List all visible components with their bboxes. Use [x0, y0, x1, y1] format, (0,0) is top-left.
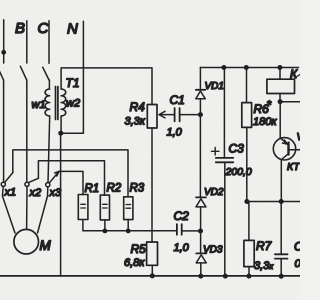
wire collector lead down to transistor [279, 102, 281, 139]
resistor R3 [124, 197, 133, 220]
svg-text:C2: C2 [174, 209, 190, 223]
diode VD3 [196, 252, 206, 254]
wire node line to right edge [247, 201, 300, 203]
resistor R7 [244, 240, 254, 266]
svg-text:M: M [40, 238, 52, 253]
wire R4 top lead [151, 68, 153, 105]
node W2/N junction dot [58, 131, 63, 136]
wire X1 branch [13, 150, 128, 197]
svg-text:C3: C3 [229, 142, 245, 156]
svg-text:VD3: VD3 [203, 245, 223, 256]
wire R4 bottom to R5 [151, 128, 153, 242]
svg-text:200,0: 200,0 [225, 166, 252, 178]
resistor R6 [242, 103, 252, 128]
svg-text:x3: x3 [49, 187, 63, 199]
svg-text:R5: R5 [131, 242, 147, 256]
svg-text:C: C [38, 20, 49, 37]
node C3/rail dot [221, 65, 226, 70]
capacitor C2 plates [177, 224, 182, 235]
contact X2 diagonal [29, 178, 39, 182]
wire VD column top [199, 68, 201, 90]
wire X3 branch [59, 171, 83, 194]
svg-text:1,0: 1,0 [167, 127, 183, 139]
capacitor C1 plates [175, 108, 180, 121]
wire C1 node to VD2 [199, 115, 201, 197]
transistor VT KT circle [273, 138, 295, 160]
wire W1 bottom to X3 [48, 116, 50, 183]
svg-text:C1: C1 [170, 93, 185, 107]
switch SA blade phase B [20, 66, 26, 80]
wire X2 branch [38, 161, 104, 196]
svg-text:B: B [15, 20, 25, 37]
relay coil K box [267, 79, 295, 93]
svg-text:w1: w1 [32, 99, 46, 111]
resistor R2 [100, 195, 109, 220]
wire phase C vertical top [48, 21, 50, 64]
switch SA blade phase A [0, 66, 4, 80]
transformer T1 core [56, 87, 58, 120]
svg-text:VD1: VD1 [205, 81, 224, 92]
node relay/rail dot [277, 65, 282, 70]
capacitor C1 wiper arrow to R4 [159, 111, 174, 118]
wire R6 top lead [246, 68, 248, 103]
wire phase B lower [26, 80, 28, 182]
node C4/rail dot [279, 274, 284, 279]
top rail right segment [200, 67, 298, 69]
node VD/C2 dot [198, 229, 203, 234]
wire W2 bottom lead [60, 116, 62, 133]
transistor base bar [287, 143, 289, 155]
contact X2 circle [25, 182, 29, 186]
wire C4 bottom lead [280, 259, 282, 277]
motor M funnel wires [2, 186, 47, 233]
resistor R4 potentiometer [147, 105, 157, 129]
wire C2 node to VD3 [200, 231, 202, 253]
node R5/rail dot [150, 273, 155, 278]
node relay bottom dot [278, 99, 283, 104]
wire C1 right lead [180, 114, 200, 116]
svg-text:C: C [294, 240, 300, 254]
node A dot [1, 50, 6, 55]
node C1/VD dot [198, 112, 203, 117]
wire C2 right lead [182, 230, 200, 232]
node R6/R7 dot [244, 199, 249, 204]
transformer T1 winding W1 [45, 89, 50, 116]
contact X1 diagonal [5, 172, 13, 182]
svg-text:VD2: VD2 [204, 187, 224, 198]
svg-text:R7: R7 [256, 239, 273, 253]
wire R6 bottom to node [246, 127, 248, 201]
wire R3 bottom [127, 220, 129, 231]
contact X3 diagonal [49, 172, 59, 183]
wire R7 bottom lead [248, 267, 250, 277]
wire VD3 to rail [200, 263, 202, 276]
capacitor C3 plates [216, 158, 234, 162]
contact X3 circle [46, 183, 50, 187]
svg-text:3,3к: 3,3к [125, 116, 146, 128]
resistor R1 [78, 195, 88, 220]
svg-text:x1: x1 [4, 187, 17, 199]
bottom rail [0, 275, 300, 277]
wire relay top lead [279, 68, 281, 80]
diode VD2 [196, 196, 206, 198]
svg-text:x2: x2 [29, 187, 42, 199]
diode VD1 [196, 89, 206, 91]
wire R1 bottom to node [83, 220, 176, 231]
capacitor C3 plus sign [212, 148, 220, 156]
motor M circle [14, 229, 39, 254]
wire transistor bottom lead [280, 160, 282, 202]
svg-text:T1: T1 [66, 76, 80, 90]
node R2 dot [103, 229, 108, 234]
node R3 dot [126, 229, 131, 234]
wire phase B vertical top [26, 21, 28, 63]
wire C3 top lead [223, 68, 225, 158]
wire C3 bottom lead [224, 163, 226, 277]
svg-text:w2: w2 [66, 98, 80, 110]
wire R2 bottom [104, 220, 106, 231]
svg-text:3,3к: 3,3к [254, 260, 274, 272]
svg-text:0: 0 [295, 258, 301, 270]
wire C4 top lead [280, 202, 282, 255]
wire VD2 to C2 node [200, 207, 202, 231]
wire phase C to winding W1 [48, 80, 50, 89]
transistor emitter arrow diagonal [280, 138, 287, 144]
wire W2 top to rail [61, 68, 152, 89]
svg-text:R4: R4 [130, 100, 146, 114]
svg-text:R2: R2 [107, 183, 122, 195]
capacitor C4 plates [275, 254, 288, 258]
wire phase A lower [3, 80, 5, 182]
svg-text:R3: R3 [130, 183, 145, 195]
switch SA blade phase C [43, 67, 49, 80]
transistor base lead right [290, 149, 301, 151]
svg-text:*: * [267, 98, 272, 112]
wire N/W2 node down to bottom rail [60, 133, 62, 276]
wire phase A vertical top [3, 20, 5, 63]
resistor R5 [147, 242, 158, 265]
svg-text:R1: R1 [85, 183, 100, 195]
wire relay node to right edge [280, 101, 300, 103]
transformer T1 winding W2 [61, 89, 66, 116]
wire N vertical [62, 21, 83, 133]
svg-text:КТ: КТ [287, 161, 300, 173]
svg-text:1,0: 1,0 [174, 242, 190, 254]
node C3/rail dot bottom [223, 274, 228, 279]
wire R5 bottom lead [151, 265, 153, 276]
node VD3/rail dot [198, 274, 203, 279]
svg-text:6,8к: 6,8к [124, 257, 145, 269]
svg-text:N: N [67, 21, 78, 38]
node R7/rail dot [246, 274, 251, 279]
contact X1 circle [1, 182, 5, 186]
wire VD1 to C1 node [199, 99, 201, 115]
svg-text:180к: 180к [253, 116, 277, 128]
node transistor/C4 dot [279, 199, 284, 204]
wire R7 top lead [248, 202, 250, 241]
capacitor C2 wire left [152, 230, 176, 232]
transistor collector diagonal [282, 154, 289, 160]
svg-text:V: V [297, 132, 301, 143]
node R6/rail dot [244, 65, 249, 70]
wire relay bottom lead [279, 94, 281, 102]
